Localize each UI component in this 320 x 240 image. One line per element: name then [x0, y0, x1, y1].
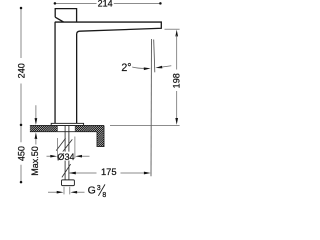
dimension 198 down arrow — [175, 118, 178, 125]
dimension 175 line — [69, 172, 147, 174]
svg-text:G: G — [88, 185, 96, 197]
hose end fitting G3/8 — [62, 180, 75, 186]
svg-text:3: 3 — [97, 185, 101, 192]
dimension 240 line — [20, 8, 22, 125]
svg-text:2°: 2° — [121, 62, 131, 74]
svg-text:8: 8 — [102, 192, 106, 199]
dimension 175 right arrowhead — [144, 172, 151, 175]
dimension 198 top extension line — [165, 28, 180, 30]
countertop deck right hatched section with apron — [54, 126, 126, 147]
svg-text:214: 214 — [98, 0, 113, 9]
dimension 175 left arrowhead — [69, 172, 76, 175]
svg-text:240: 240 — [16, 63, 26, 78]
svg-text:175: 175 — [101, 166, 117, 177]
dimension O34 text backing — [58, 152, 74, 161]
countertop deck left hatched section — [24, 126, 66, 132]
break slash lower — [62, 164, 71, 177]
dimension 214 end dots — [54, 2, 57, 5]
dimension O34 extension lines — [57, 137, 75, 160]
deck outline — [30, 125, 104, 146]
dimension G3/8 left arrow — [48, 191, 57, 193]
base plate — [51, 123, 83, 125]
dimension 198 line with up arrow — [175, 30, 178, 37]
svg-text:Ø34: Ø34 — [57, 152, 74, 162]
stream 2-degree tilted line — [154, 40, 155, 73]
dimension G3/8 ticks — [64, 187, 70, 195]
dimension 198 bottom extension line — [110, 125, 180, 127]
svg-text:450: 450 — [16, 146, 26, 161]
dimension 450 line — [20, 125, 22, 182]
faucet spout blade top edge, tip and underside — [55, 22, 162, 123]
dimension 214 line — [55, 2, 160, 4]
water stream plumb line — [150, 39, 153, 176]
dimension O34 right arrow — [81, 155, 90, 157]
dimension O34 left arrow — [47, 155, 53, 157]
dimension 450 dots — [20, 124, 23, 127]
faucet handle (lever knob) — [55, 9, 76, 22]
faucet body left edge — [54, 22, 56, 123]
dimension Max.50 upper line and down arrow — [35, 105, 37, 119]
dimension 240 top dot — [20, 7, 23, 10]
svg-text:198: 198 — [172, 73, 182, 88]
break slash upper pair — [56, 138, 72, 151]
angle right leader with left arrowhead — [160, 66, 172, 68]
svg-text:Max.50: Max.50 — [30, 146, 40, 176]
deck hole edges — [57, 126, 75, 132]
dimension G3/8 right arrow — [77, 191, 85, 193]
angle left leader with right arrowhead — [132, 67, 146, 68]
threaded rod — [65, 126, 69, 180]
dimension Max.50 lower up arrow and line — [35, 132, 38, 139]
